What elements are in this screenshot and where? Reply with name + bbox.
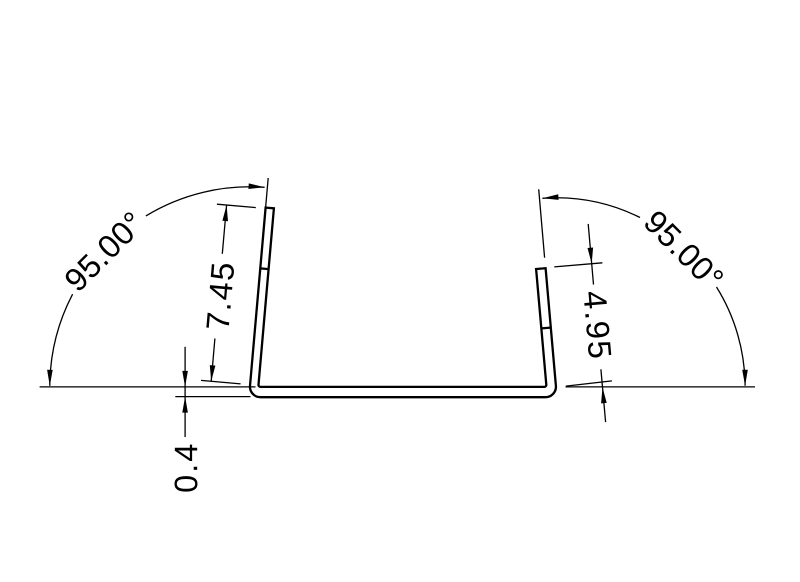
dimension 4.95 xyxy=(554,263,602,267)
dimension 7.45 xyxy=(217,204,256,207)
label 4.95 xyxy=(583,291,612,359)
right leg joint tick xyxy=(541,326,551,329)
dimension 0.4 xyxy=(184,347,186,437)
label 95.00 deg right xyxy=(643,209,725,291)
left leg joint tick xyxy=(260,267,268,270)
left angle arc xyxy=(50,294,73,386)
label 95.00 deg left xyxy=(63,211,145,293)
label 0.4 xyxy=(174,445,197,492)
baseline extension right xyxy=(566,386,756,388)
left leg extension line xyxy=(266,178,269,208)
right angle arc xyxy=(717,287,746,386)
label 7.45 xyxy=(206,263,234,330)
baseline extension left xyxy=(40,386,256,388)
right leg extension line xyxy=(539,189,545,257)
bottom outer extension line xyxy=(175,396,250,398)
channel profile xyxy=(250,208,556,398)
